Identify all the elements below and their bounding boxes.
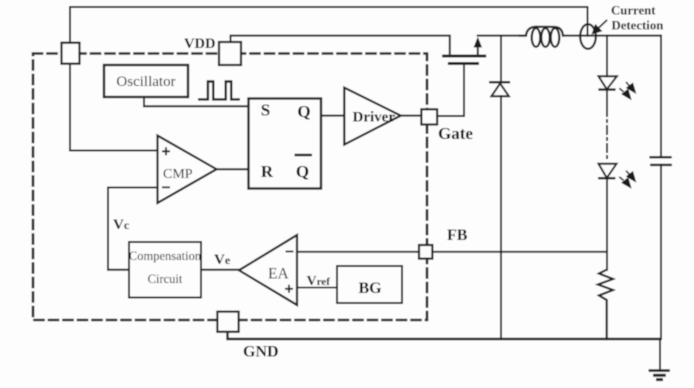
svg-text:Oscillator: Oscillator — [116, 74, 175, 90]
svg-text:BG: BG — [359, 280, 383, 297]
svg-text:EA: EA — [268, 266, 289, 283]
svg-text:VDD: VDD — [184, 36, 215, 52]
svg-text:Gate: Gate — [438, 124, 473, 143]
svg-text:Q: Q — [297, 102, 310, 121]
svg-text:Ve: Ve — [214, 252, 231, 268]
svg-text:Current: Current — [611, 4, 656, 18]
svg-text:Driver: Driver — [353, 110, 396, 126]
svg-text:GND: GND — [243, 344, 279, 361]
svg-text:Compensation: Compensation — [129, 249, 202, 263]
svg-text:S: S — [261, 101, 270, 120]
svg-text:FB: FB — [447, 227, 468, 244]
svg-text:Q: Q — [296, 162, 309, 181]
svg-text:Circuit: Circuit — [148, 272, 183, 286]
svg-text:CMP: CMP — [163, 167, 193, 182]
svg-text:Vref: Vref — [307, 274, 331, 289]
svg-text:R: R — [261, 162, 274, 181]
svg-text:Detection: Detection — [612, 19, 664, 33]
svg-text:Vc: Vc — [113, 217, 130, 233]
